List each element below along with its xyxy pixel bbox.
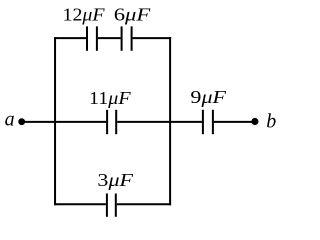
svg-text:a: a [5, 109, 15, 131]
wire: bottom branch, left rail to C5 [54, 203, 106, 205]
svg-text:11μF: 11μF [89, 88, 132, 108]
wire: C4 to terminal b [214, 121, 252, 123]
capacitor C4 9uF plates [203, 110, 213, 134]
svg-text:9μF: 9μF [190, 87, 227, 107]
svg-text:3μF: 3μF [97, 170, 134, 190]
capacitor C1 12uF plates [87, 26, 97, 50]
capacitor C5 3uF plates [107, 194, 116, 217]
wire: terminal a to left rail [23, 121, 56, 123]
wire: top branch, C2 to right rail [133, 37, 172, 39]
wire: right rail (vertical) [169, 37, 171, 205]
wire: right rail to C4 [170, 121, 202, 123]
capacitor C3 11uF plates [107, 110, 116, 134]
wire: left rail (vertical) [54, 37, 56, 205]
wire: top branch, left rail to C1 [54, 37, 86, 39]
capacitor C2 6uF plates [122, 26, 132, 50]
terminal b dot [251, 118, 258, 125]
wire: bottom branch, C5 to right rail [117, 203, 171, 205]
svg-text:6μF: 6μF [114, 5, 152, 25]
wire: middle branch, left rail to C3 [55, 121, 106, 123]
wire: middle branch, C3 to right rail [117, 121, 170, 123]
wire: top branch, C1 to C2 [98, 37, 121, 39]
svg-text:b: b [266, 110, 276, 132]
terminal a dot [18, 118, 25, 125]
svg-text:12μF: 12μF [63, 5, 106, 25]
